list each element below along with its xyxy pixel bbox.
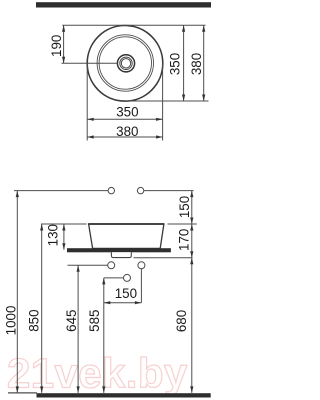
dimension 170 xyxy=(176,224,193,258)
dimension 150 bottom xyxy=(104,286,142,304)
dimension 1000 xyxy=(4,191,19,393)
dimension 645 xyxy=(64,265,80,393)
basin inner rim ring inner xyxy=(99,37,151,89)
svg-text:190: 190 xyxy=(49,35,64,57)
supply line below counter xyxy=(68,264,108,266)
floor bar xyxy=(37,393,211,397)
drain middle circle xyxy=(120,57,132,69)
drain outer circle xyxy=(117,55,134,72)
dimension 190 xyxy=(49,25,65,63)
extension line top xyxy=(62,24,205,26)
svg-text:380: 380 xyxy=(189,53,204,75)
svg-text:645: 645 xyxy=(64,310,79,332)
svg-text:680: 680 xyxy=(174,310,189,332)
dimension 680 xyxy=(174,258,193,393)
svg-text:350: 350 xyxy=(116,104,138,119)
dimension 350 bottom xyxy=(87,104,162,121)
extension line below circle right xyxy=(162,63,164,140)
dimension 850 xyxy=(26,224,43,393)
supply line top (side view) xyxy=(14,190,108,192)
svg-text:850: 850 xyxy=(26,309,41,331)
circle C waste xyxy=(124,274,131,281)
supply circle left xyxy=(108,187,114,193)
svg-text:170: 170 xyxy=(176,229,191,251)
circle B cold water xyxy=(138,262,145,269)
drain fitting below counter xyxy=(111,252,131,257)
svg-text:130: 130 xyxy=(46,224,61,246)
svg-text:150: 150 xyxy=(177,196,192,218)
dimension 130 xyxy=(46,224,66,250)
basin inner rim ring outer xyxy=(97,35,153,91)
vertical from circle B xyxy=(140,269,142,303)
dimension 585 xyxy=(87,278,105,393)
dimension 380 right xyxy=(189,25,205,101)
svg-text:380: 380 xyxy=(116,124,138,139)
floor line thin xyxy=(8,392,37,394)
circle A hot water xyxy=(108,262,115,269)
extension line bottom right xyxy=(125,100,209,102)
dimension 380 bottom xyxy=(87,124,162,139)
extension line rim right xyxy=(168,223,197,225)
svg-text:1000: 1000 xyxy=(4,306,19,336)
svg-text:350: 350 xyxy=(168,53,183,75)
supply line top right segment xyxy=(144,190,194,192)
svg-text:150: 150 xyxy=(115,286,137,301)
extension line rim left xyxy=(41,223,87,225)
waste line xyxy=(104,277,124,279)
dimension 150 right xyxy=(177,191,193,224)
washbasin bowl (side view) xyxy=(89,224,164,248)
svg-text:585: 585 xyxy=(87,310,102,332)
countertop bar xyxy=(67,248,171,252)
extension line under counter xyxy=(134,257,193,259)
wall bar (top) xyxy=(36,2,211,7)
svg-text:21vek.by: 21vek.by xyxy=(7,350,188,397)
extension line below circle left xyxy=(86,63,88,140)
basin outer circle (top view) xyxy=(87,26,163,102)
supply circle right xyxy=(137,187,143,193)
extension line circle centre xyxy=(62,62,118,64)
bowl rim top edge xyxy=(88,223,164,225)
drain inner circle xyxy=(121,59,130,68)
dimension 350 right xyxy=(168,25,186,101)
